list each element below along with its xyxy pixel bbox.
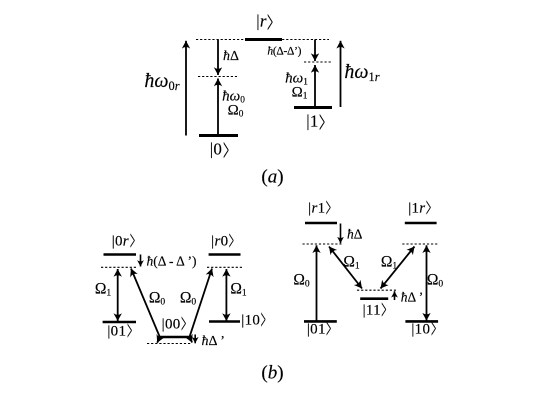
label Omega_0 left <box>149 290 165 306</box>
(a) middle dashed virtual level (left) <box>198 76 237 78</box>
(b-right) |1r> level <box>405 222 437 225</box>
(b-left) |00> level <box>159 336 189 339</box>
(b-right) Omega_0 left up arrow <box>316 245 318 321</box>
(a) right tall arrow h-bar omega_1r <box>340 41 342 107</box>
(b-left) |01> level <box>103 321 136 324</box>
(b-left) |0r> level <box>104 253 137 256</box>
(b-left) Omega_1 right double arrow <box>225 269 227 321</box>
label h-bar omega_1r <box>344 62 379 82</box>
(b-right) Omega_0 right double arrow <box>426 245 428 320</box>
(a) |r> level <box>245 38 282 41</box>
(b-right) dashed under |1r> <box>402 243 439 245</box>
(b-right) |r1> level <box>305 222 337 225</box>
label h-bar Delta-prime right <box>401 290 424 304</box>
label h-bar (Delta - Delta') <box>147 254 197 268</box>
(b-right) h-bar Delta down arrow <box>340 224 342 244</box>
(b-left) Omega_1 left double arrow <box>117 269 119 321</box>
label ket |01> (right diagram) <box>307 322 332 337</box>
(b-left) Omega_0 left diagonal double arrow <box>131 269 160 343</box>
(b-left) dashed below |00> <box>147 343 192 345</box>
label ket |00> <box>162 317 187 332</box>
label h-bar Delta <box>223 50 239 64</box>
label Omega_1 right <box>230 281 246 297</box>
(b-left) Omega_0 right diagonal double arrow <box>190 269 213 343</box>
label h-bar (Delta-Delta') <box>267 47 301 59</box>
label h-bar Delta-prime <box>202 335 225 349</box>
label Omega_0 left (right diagram) <box>293 272 309 288</box>
label ket |10> <box>241 313 266 328</box>
label Omega_0 right (right diagram) <box>427 272 443 288</box>
label Omega_0 <box>228 104 244 119</box>
(b-left) |10> level <box>209 320 240 323</box>
(b-right) small up arrow h-bar Delta' <box>394 291 396 300</box>
label ket |r> <box>256 13 274 30</box>
label Omega_0 right <box>180 290 196 306</box>
label Omega_1 left <box>95 281 111 297</box>
(b-left) dashed under |0r> <box>101 266 138 268</box>
label h-bar omega_1 <box>285 71 308 86</box>
label ket |0> <box>210 140 229 157</box>
label h-bar omega_0r <box>144 71 179 91</box>
label ket |0r> <box>112 234 136 249</box>
(a) h-bar Delta down arrow <box>217 40 219 76</box>
(a) top dashed line through |r> <box>196 39 329 41</box>
caption (a) <box>261 167 283 186</box>
(a) |1> level <box>294 106 332 109</box>
label ket |01> <box>107 324 132 339</box>
label Omega_1 left (right diagram) <box>343 254 359 270</box>
label ket |11> <box>363 303 388 318</box>
label ket |1> <box>306 113 325 130</box>
(b-left) small down arrow h-bar Delta' <box>194 335 196 344</box>
caption (b) <box>261 364 283 383</box>
label ket |r1> <box>308 202 332 217</box>
(a) h-bar omega_1 up arrow <box>314 65 316 108</box>
(b-left) |r0> level <box>209 253 241 256</box>
(a) left tall arrow h-bar omega_0r <box>185 41 187 136</box>
(a) h-bar (Delta-Delta') down arrow <box>314 40 316 62</box>
label ket |10> (right diagram) <box>411 322 436 337</box>
(b-right) |01> level <box>304 320 337 323</box>
label ket |r0> <box>211 234 235 249</box>
(b-right) |11> level <box>360 297 388 300</box>
(b-left) small down arrow h-bar(Delta-Delta') <box>140 255 142 267</box>
(a) right dashed virtual level <box>304 61 332 63</box>
(a) h-bar omega_0 up arrow <box>217 79 219 136</box>
(b-right) dashed under |r1> <box>303 243 342 245</box>
(a) |0> level <box>199 134 238 137</box>
(b-right) Omega_1 right diagonal double arrow <box>381 247 415 289</box>
label h-bar omega_0 <box>222 90 245 105</box>
(b-right) dashed above |11> <box>357 289 396 291</box>
(b-right) |10> level <box>405 320 438 323</box>
label h-bar Delta right <box>347 227 362 241</box>
label ket |1r> <box>408 202 432 217</box>
(b-left) dashed under |r0> <box>207 266 244 268</box>
label Omega_1 right (right diagram) <box>381 254 397 270</box>
label Omega_1 <box>292 85 308 100</box>
(b-right) Omega_1 left diagonal double arrow <box>329 247 362 289</box>
